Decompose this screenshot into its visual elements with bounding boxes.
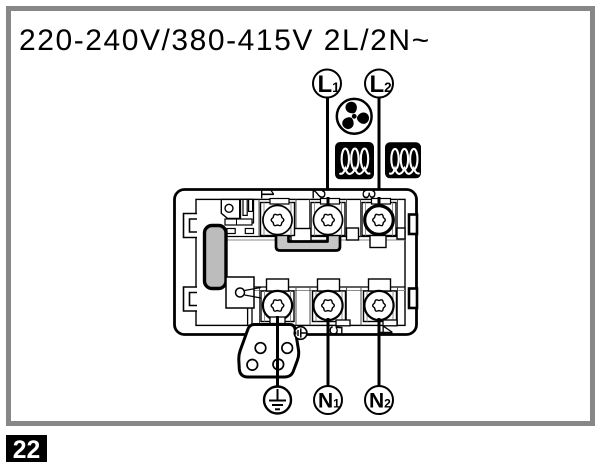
terminal block inner housing [196,199,405,325]
inner rail bottom [248,286,405,288]
small tab B [245,229,253,234]
node N1 [314,386,342,414]
small tab A [227,229,235,234]
svg-text:1: 1 [257,189,278,199]
node L2 [365,70,393,98]
heating element icon 2 [385,142,421,178]
wire N2 from terminal 4 [378,318,381,386]
page number box 22 [6,435,47,464]
left mounting bracket lower [184,287,198,311]
node N2 [365,386,393,414]
fan icon [337,99,374,134]
terminal 5 foot [336,320,350,326]
node L1 [313,70,341,98]
heating element icon 1 [335,142,374,179]
svg-text:220-240V/380-415V 2L/2N~: 220-240V/380-415V 2L/2N~ [19,24,431,57]
terminal 4 [364,279,397,322]
svg-text:2: 2 [309,189,330,199]
inner rail top [222,236,405,238]
latch piece with hole top-left [221,199,239,218]
wire L2 to terminal 3 [378,97,381,207]
svg-text:3: 3 [359,189,380,199]
support lines below clamp bracket [248,308,252,326]
connector slots top-left [241,199,254,223]
small shelf under latch [225,219,252,225]
cable clamp plate with holes [239,325,299,378]
wire earth from terminal 6 [276,316,279,387]
terminal block body [175,190,417,335]
divider tab right of T3 [397,228,405,239]
wire N1 from terminal 5 [327,318,330,386]
wire L1 to terminal 2 [326,97,329,207]
grey cable guide pill [205,226,227,289]
housing cell walls top row [259,199,398,236]
terminal 3 [362,197,396,236]
housing cell walls bottom row [260,287,398,326]
clamp bracket with hole bottom-left [226,277,261,308]
jumper link terminals 1-2 [276,234,340,251]
terminal 6 (earth) [261,279,294,322]
terminal 4 foot [383,320,397,326]
terminal 5 [313,279,346,322]
terminal 6 foot [270,317,285,324]
earth ground symbol [264,387,291,414]
svg-text:22: 22 [13,437,40,464]
small earth marker on block [294,327,307,340]
terminal 2 [311,197,345,236]
right tab upper [409,215,417,235]
wire earth through clamp [276,322,279,387]
right tab lower [409,289,417,309]
divider tab between T2 T3 [347,228,359,240]
left mounting bracket upper [184,214,198,238]
terminal 1 [261,199,295,236]
terminal 3 foot [370,236,386,248]
divider tab between T1 T2 [291,229,311,243]
